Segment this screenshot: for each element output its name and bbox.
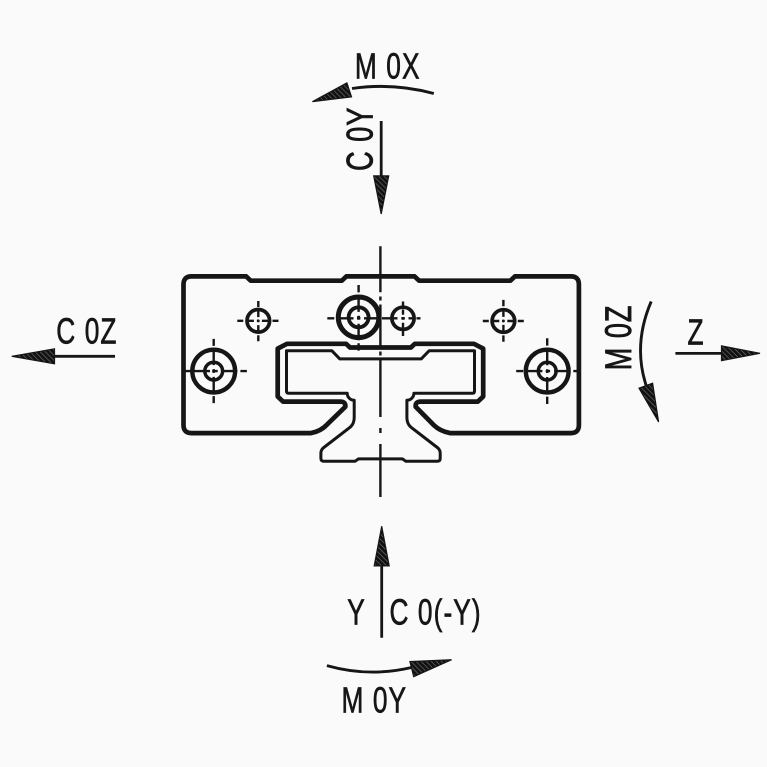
vertical centerline — [379, 246, 381, 497]
top-left small circle — [237, 301, 278, 341]
Z right arrow — [675, 352, 722, 355]
top big circle — [327, 285, 420, 351]
svg-text:C 0Z: C 0Z — [56, 310, 117, 351]
carriage block outline with cavity and lips — [184, 276, 579, 433]
M0Z arc arrow — [641, 302, 652, 387]
svg-text:Y: Y — [347, 591, 365, 632]
svg-text:M 0Y: M 0Y — [342, 679, 408, 720]
svg-text:M 0Z: M 0Z — [597, 305, 639, 371]
C0Y down arrow — [380, 121, 383, 176]
middle small circle — [392, 302, 414, 337]
top-right small circle — [483, 300, 524, 342]
svg-text:C 0Y: C 0Y — [338, 107, 380, 171]
left big circle — [185, 339, 247, 403]
rail cross-section — [287, 351, 475, 462]
C0(-Y) up arrow — [380, 566, 383, 638]
right big circle — [516, 338, 580, 404]
svg-text:C 0(-Y): C 0(-Y) — [390, 591, 482, 632]
M0Y arc arrow — [327, 666, 412, 672]
svg-text:Z: Z — [688, 311, 704, 352]
C0Z left arrow — [52, 355, 115, 358]
M0X arc arrow — [352, 86, 434, 93]
svg-text:M 0X: M 0X — [355, 45, 421, 86]
